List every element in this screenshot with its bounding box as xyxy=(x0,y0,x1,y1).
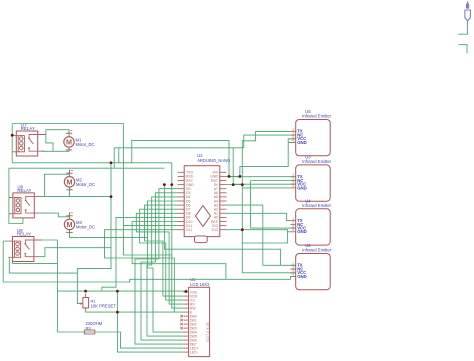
battery connector J1 xyxy=(465,1,471,21)
wire upper bus left drop x114 xyxy=(113,148,115,168)
junction arduino GND right A xyxy=(228,175,231,178)
wire relay U9 second contact to motor return xyxy=(40,248,111,257)
svg-text:Motor_DC: Motor_DC xyxy=(76,182,95,187)
wire U8 top loop to arduino GND xyxy=(9,167,165,169)
wire D6 to LCD VDD xyxy=(145,205,184,296)
junction arduino 5V row B xyxy=(241,183,244,186)
wire vertical x171.8 GND to LCD RW xyxy=(172,163,184,308)
wire M2 bottom xyxy=(69,187,71,197)
IR emitter module U5 xyxy=(290,109,331,156)
wire IR3 GND link down to VCC bus xyxy=(242,232,287,243)
svg-text:M: M xyxy=(66,138,72,147)
wire 220 ohm net to LCD LED+ xyxy=(57,332,183,348)
svg-text:RELAY: RELAY xyxy=(17,232,31,237)
svg-text:LCD 16X2: LCD 16X2 xyxy=(190,282,210,287)
svg-text:4: 4 xyxy=(292,273,294,277)
wire arduino GND row right xyxy=(227,175,240,177)
wire x233.2 drop to IR2 VCC xyxy=(233,148,296,184)
svg-text:GND: GND xyxy=(297,185,307,190)
svg-text:Infrared Emitter: Infrared Emitter xyxy=(302,203,331,208)
svg-text:RELAY: RELAY xyxy=(17,188,31,193)
relay U9 xyxy=(8,228,42,262)
wire VCC bus x242.3 xyxy=(242,185,295,273)
wire U8 left vertical xyxy=(9,168,23,223)
wire motor return junction xyxy=(110,197,112,200)
svg-text:R3: R3 xyxy=(86,325,92,330)
wire relay U8 common to motor return xyxy=(40,196,111,198)
wire D12 to LCD E xyxy=(105,230,184,312)
wire U9 middle loop xyxy=(9,258,77,273)
wire A3 to IR4 TX xyxy=(227,205,296,265)
wire IR1 GND stub xyxy=(288,142,290,144)
wire D13 row to IR3 GND xyxy=(227,230,291,232)
svg-text:LED-: LED- xyxy=(190,350,199,354)
wire M1 top stub xyxy=(68,130,70,135)
wire M1 bottom xyxy=(42,150,69,152)
wire vertical x164.4 GND bus to IR4 TX loop xyxy=(164,185,280,266)
wire arduino 5V row right xyxy=(227,184,243,186)
wire U9 outer loop to IR4 GND xyxy=(3,241,290,282)
svg-text:GND: GND xyxy=(297,274,307,279)
wire D3 to LCD DB6 xyxy=(141,193,184,340)
wire vertical x117.4 to LCD LED- xyxy=(117,291,183,352)
wire upper bus row 147.8 xyxy=(114,147,244,149)
wire U9 inner loop left stub xyxy=(12,258,14,264)
wire pot top net to LCD VSS xyxy=(57,291,188,292)
junction LED- bus top xyxy=(116,290,119,293)
relay U7 xyxy=(12,122,46,156)
wire upper bus to IR2 TX xyxy=(229,140,296,176)
svg-text:Infrared Emitter: Infrared Emitter xyxy=(302,248,331,253)
svg-text:4: 4 xyxy=(292,184,294,188)
junction arduino GND left B xyxy=(170,183,173,186)
LCD 16x2 U1 xyxy=(180,277,210,356)
wire D10 to IR4 GND bus xyxy=(132,222,226,280)
wire U9 inner loop xyxy=(13,263,58,265)
junction D13 VCC bus xyxy=(241,228,244,231)
wire x250.6 vertical xyxy=(251,181,296,229)
junction arduino GND left A xyxy=(163,183,166,186)
wire D9 to pot top xyxy=(102,217,178,291)
wire pot bottom to E bus xyxy=(86,311,175,313)
svg-text:GND: GND xyxy=(297,229,307,234)
svg-text:RELAY: RELAY xyxy=(21,126,35,131)
wire battery down xyxy=(458,21,467,34)
wire VCC bus up to IR1 TX xyxy=(242,131,290,184)
svg-text:ARDUINO_NANO: ARDUINO_NANO xyxy=(197,158,230,163)
junction U7 coil pin xyxy=(11,134,14,137)
wire relay U8 second contact to M3 top xyxy=(40,213,70,219)
wire A1 to IR3 TX xyxy=(227,213,291,220)
svg-text:M: M xyxy=(67,177,73,186)
wire pot wiper net xyxy=(77,163,111,304)
wire D8 to LCD RS xyxy=(136,213,183,304)
wire IR1 VCC GND chain xyxy=(240,139,296,177)
relay U8 xyxy=(9,184,43,218)
svg-text:4: 4 xyxy=(292,228,294,232)
svg-text:D13: D13 xyxy=(212,228,218,232)
svg-text:10K PRESET: 10K PRESET xyxy=(91,303,117,308)
wire U7 top loop xyxy=(12,124,123,226)
junction arduino GND right B xyxy=(239,175,242,178)
svg-text:GND: GND xyxy=(297,140,307,145)
junction LCD VSS xyxy=(185,290,188,293)
junction LED- bus E row xyxy=(116,311,119,314)
wire U9 coil stub xyxy=(3,240,8,242)
svg-text:Infrared Emitter: Infrared Emitter xyxy=(302,114,331,119)
resistor R3 220OHM xyxy=(84,321,102,334)
IR emitter module U6 xyxy=(290,243,331,290)
junction node wiper bus xyxy=(110,161,113,164)
wire IR1 NC drop xyxy=(244,135,291,148)
wire relay U9 common to pot top bus xyxy=(40,240,57,332)
wire D2 to LCD DB7 xyxy=(135,189,184,344)
wire relay U7 common stub link xyxy=(38,134,46,136)
IR emitter module U3 xyxy=(290,154,331,201)
wire U7 bottom loop to arduino GND xyxy=(12,162,172,164)
wire relay U7 to M1 top xyxy=(46,130,69,135)
junction motor return xyxy=(110,195,113,198)
wire upper bus drop x118.8 xyxy=(118,148,120,163)
IR emitter module U4 xyxy=(290,198,331,245)
wire M1 bottom stub xyxy=(68,150,70,151)
wire D7 to LCD VO xyxy=(140,209,184,300)
wire battery stub 2 xyxy=(458,45,467,54)
wire relay U7 to M1 bottom jog xyxy=(46,135,53,152)
arduino nano U2 xyxy=(178,153,231,243)
wire M2 top link xyxy=(45,174,70,196)
wire U7 left vertical xyxy=(11,124,13,163)
svg-text:16 X 2 LCD: 16 X 2 LCD xyxy=(206,322,210,342)
motor M3 xyxy=(64,212,95,234)
wire bus corner x131.8 xyxy=(132,140,229,162)
svg-text:Motor_DC: Motor_DC xyxy=(76,142,95,147)
wire IR2 GND branch xyxy=(242,187,290,189)
motor M2 xyxy=(64,170,95,192)
svg-text:M: M xyxy=(67,220,73,229)
svg-text:4: 4 xyxy=(292,139,294,143)
wire D4 to LCD DB5 xyxy=(147,197,184,336)
wire D5 to LCD DB4 xyxy=(148,201,184,332)
wire D11 to RW bus xyxy=(123,226,177,255)
junction arduino 5V row A xyxy=(232,183,235,186)
wire IR2 NC to IR3 VCC bus xyxy=(251,180,291,182)
junction pot top xyxy=(84,290,87,293)
svg-text:Infrared Emitter: Infrared Emitter xyxy=(302,159,331,164)
motor M1 xyxy=(64,130,95,152)
potentiometer R1 10K PRESET xyxy=(79,294,117,312)
svg-text:Motor_DC: Motor_DC xyxy=(76,224,95,229)
wire M3 bottom to bus xyxy=(70,230,148,238)
svg-text:D12: D12 xyxy=(186,228,192,232)
